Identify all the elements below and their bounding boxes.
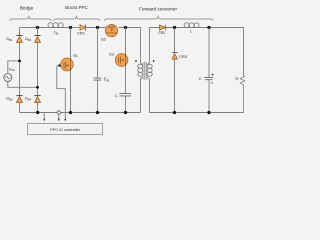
resistor R load: [236, 76, 245, 113]
svg-text:S1: S1: [73, 53, 79, 58]
node dot: boost switch node: [69, 26, 72, 29]
wire: L to load: [201, 28, 243, 76]
node dot: S1 source: [69, 111, 72, 114]
wire: bridge left column with AC tap: [19, 28, 21, 113]
mosfet S2: [101, 24, 118, 41]
wire: secondary ground rail: [150, 112, 244, 114]
pin: input sense into controller: [43, 113, 45, 122]
wire: top rail S2 to transformer: [119, 28, 141, 64]
wire: AC bottom to bridge right column: [8, 82, 38, 88]
node dot: C output ground: [207, 111, 210, 114]
node open terminal: current sense: [57, 111, 60, 114]
svg-text:DB4: DB4: [25, 97, 32, 102]
inductor L output: [183, 23, 201, 34]
diode DB1: [6, 36, 22, 43]
brace Bridge: [10, 16, 51, 22]
wire: CR2 to L: [166, 27, 183, 29]
svg-text:CB: CB: [104, 77, 109, 83]
mosfet S1: [61, 28, 79, 113]
node dot: output cap top: [207, 26, 210, 29]
node dot: CB ground: [96, 111, 99, 114]
svg-text:C: C: [115, 93, 118, 98]
svg-text:DB1: DB1: [6, 37, 13, 42]
node dot: C primary ground: [124, 111, 127, 114]
svg-text:DB3: DB3: [6, 97, 13, 102]
node dot: CR3 node: [173, 26, 176, 29]
wire: secondary top to CR2: [150, 28, 160, 113]
wire: AC top to bridge left column: [8, 61, 20, 74]
transformer phase dot secondary: [153, 60, 155, 62]
diode DB4: [25, 96, 41, 103]
node dot: AC tap left: [18, 60, 21, 63]
svg-text:CR2: CR2: [158, 31, 165, 35]
diode DB2: [25, 36, 41, 43]
node dot: ground rail bridge: [36, 111, 39, 114]
wire: bridge right column: [37, 28, 39, 113]
node dot: CR3 ground: [173, 111, 176, 114]
svg-text:LB: LB: [54, 30, 58, 36]
AC source VAC: [4, 67, 15, 81]
diode CR3 freewheeling: [172, 28, 188, 113]
svg-text:Bridge: Bridge: [20, 6, 34, 11]
capacitor CB: [94, 28, 109, 113]
transformer phase dot primary: [135, 60, 137, 62]
capacitor C primary: [115, 93, 131, 98]
svg-text:PFC IC controller: PFC IC controller: [50, 127, 81, 132]
svg-text:CR1: CR1: [77, 30, 85, 35]
wire: primary bottom to ground rail: [140, 79, 142, 113]
transformer core: [144, 62, 146, 80]
svg-text:Forward converter: Forward converter: [139, 7, 177, 12]
diode CR2: [158, 25, 166, 35]
node dot: bridge + output: [36, 26, 39, 29]
diode DB3: [6, 96, 22, 103]
brace Boost PFC: [54, 16, 101, 22]
brace Forward converter: [105, 16, 214, 22]
transformer T1: [135, 60, 155, 80]
transformer primary winding: [141, 63, 143, 65]
svg-text:DB2: DB2: [25, 37, 32, 42]
inductor LB: [48, 23, 65, 36]
transformer secondary winding: [147, 63, 149, 65]
PFC IC controller box: [28, 124, 103, 135]
svg-text:C: C: [199, 76, 202, 81]
wire: primary ground rail: [20, 112, 141, 114]
capacitor C output electrolytic: [199, 28, 214, 113]
wire: top rail from bridge to L_B: [20, 27, 48, 29]
svg-text:S2: S2: [101, 36, 107, 41]
svg-text:Boost PFC: Boost PFC: [65, 5, 88, 10]
wire: top rail L_B to CR1: [65, 27, 80, 29]
wire: top rail CR1 to S2: [86, 27, 106, 29]
svg-text:VAC: VAC: [9, 67, 16, 72]
svg-text:L: L: [190, 29, 193, 34]
diode CR1: [77, 25, 85, 36]
mosfet S3 and series capacitor C branch: [109, 28, 128, 113]
svg-text:CR3: CR3: [179, 54, 188, 59]
wire: S1 gate drive from PFC controller: [57, 64, 67, 121]
node dot: S2 to S3 and primary: [124, 26, 127, 29]
pin: current sense into controller: [58, 114, 60, 121]
svg-text:R: R: [236, 77, 239, 81]
node dot: boost output / CB: [96, 26, 99, 29]
svg-text:S3: S3: [109, 51, 115, 56]
node dot: AC tap right: [36, 86, 39, 89]
